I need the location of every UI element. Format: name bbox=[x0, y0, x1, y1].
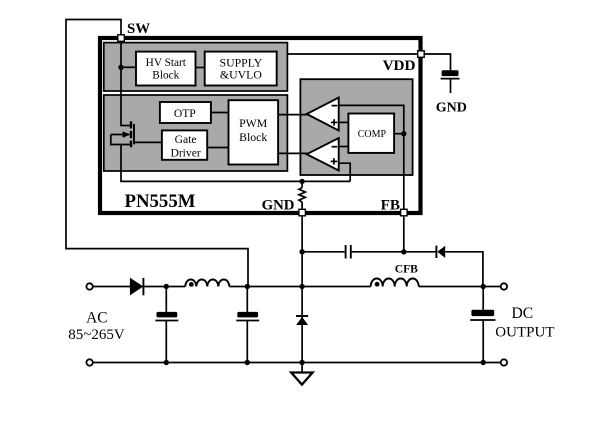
terminal: DC output minus bbox=[501, 359, 507, 365]
svg-text:Block: Block bbox=[152, 70, 179, 82]
wire: FB vertical to FB pin and below bbox=[403, 134, 405, 252]
diode D1 rectifier bbox=[130, 278, 144, 296]
svg-text:OUTPUT: OUTPUT bbox=[495, 325, 554, 341]
terminal: AC input top bbox=[86, 283, 92, 289]
node: filter cap 2 tap bbox=[245, 284, 250, 289]
gray block: PWM / gate driver section bbox=[104, 95, 288, 171]
svg-text:GND: GND bbox=[262, 198, 295, 214]
node: GND line / bottom rail bbox=[299, 360, 304, 365]
svg-text:&UVLO: &UVLO bbox=[220, 67, 262, 81]
white box: COMP bbox=[348, 114, 394, 153]
wire: AC input to rectifier diode bbox=[93, 286, 131, 288]
IC PN555M outer box bbox=[100, 38, 421, 213]
wire: supply section to VDD pin bbox=[287, 53, 418, 55]
wire: SW outer loop to AC rail bbox=[66, 20, 248, 287]
transistor Q1 power MOSFET bbox=[111, 121, 134, 147]
white box: SUPPLY & UVLO bbox=[205, 52, 277, 86]
node: bottom rail cap2 bbox=[245, 360, 250, 365]
wire: lower comparator + feedback drop bbox=[339, 163, 351, 181]
inductor L1 input filter bbox=[185, 280, 229, 287]
node: bottom rail output cap bbox=[481, 360, 486, 365]
op-amp U1 upper comparator bbox=[307, 98, 339, 131]
gray block: HV start / supply section bbox=[104, 43, 288, 91]
node: output cap tap bbox=[481, 284, 486, 289]
IC pin GND bbox=[299, 209, 306, 216]
svg-text:COMP: COMP bbox=[358, 129, 387, 140]
svg-text:HV Start: HV Start bbox=[146, 57, 187, 69]
svg-text:FB: FB bbox=[381, 197, 400, 214]
white box: Gate Driver bbox=[162, 130, 207, 159]
channel segment (source) bbox=[130, 141, 132, 148]
svg-text:SW: SW bbox=[127, 21, 150, 37]
wire: GND pin down through clamp diode to ground rail bbox=[301, 216, 303, 373]
node: COMP output junction bbox=[401, 131, 406, 136]
wire: HV Start Block to SUPPLY&UVLO bbox=[196, 67, 205, 69]
svg-text:OTP: OTP bbox=[174, 107, 196, 120]
svg-text:PWM: PWM bbox=[239, 116, 268, 130]
svg-text:Driver: Driver bbox=[170, 146, 200, 159]
wire: upper comparator plus input to COMP bbox=[339, 121, 349, 123]
wire: D2 anode to output node bbox=[445, 252, 483, 287]
svg-text:DC: DC bbox=[512, 305, 534, 322]
body arrowhead bbox=[123, 131, 131, 138]
gray block: comparator section bbox=[300, 79, 412, 175]
gate bar bbox=[133, 124, 135, 144]
inductor L2 CFB bbox=[371, 279, 419, 287]
wire: top coupling net bbox=[302, 251, 345, 253]
body arrow wire bbox=[111, 134, 130, 136]
diode D2 (cathode left) bbox=[436, 246, 445, 258]
white box: PWM Block bbox=[229, 100, 279, 164]
wire: Gate Driver to PWM Block bbox=[207, 147, 228, 149]
source-body tie loop bbox=[111, 135, 131, 145]
terminal: AC input bottom bbox=[86, 359, 92, 365]
node: source sense junction bbox=[299, 179, 304, 184]
node: SW line / HV tap junction bbox=[118, 65, 123, 70]
diode D3 clamp (cathode up) bbox=[296, 316, 308, 325]
svg-text:85~265V: 85~265V bbox=[68, 327, 125, 343]
wire: upper comparator minus input to FB node bbox=[339, 105, 404, 133]
node: bottom rail cap1 bbox=[164, 360, 169, 365]
IC pin FB bbox=[401, 209, 408, 216]
wire: coupling cap to FB node bbox=[352, 251, 436, 253]
svg-text:PN555M: PN555M bbox=[125, 191, 196, 212]
svg-text:GND: GND bbox=[436, 101, 467, 116]
wire: lower comparator minus input to COMP bbox=[339, 146, 349, 148]
wire: PWM Block to lower comparator output bbox=[278, 152, 307, 154]
svg-text:AC: AC bbox=[86, 309, 107, 326]
wire: MOSFET source down and right to sense node bbox=[121, 145, 350, 182]
capacitor C4 coupling bbox=[346, 245, 351, 259]
capacitor C2 filter 1 bbox=[155, 287, 178, 363]
node: GND line / top coupling net bbox=[299, 249, 304, 254]
wire: CFB to DC output bbox=[419, 286, 501, 288]
white box: OTP bbox=[160, 102, 211, 123]
node: filter cap 1 tap bbox=[164, 284, 169, 289]
op-amp U2 lower comparator bbox=[307, 138, 339, 171]
wire: PWM Block to upper comparator output bbox=[278, 114, 307, 116]
ground symbol bbox=[291, 373, 312, 385]
wire: inductor to mid rail bbox=[229, 286, 370, 288]
white box: HV Start Block bbox=[136, 52, 196, 86]
wire: SW pin down to MOSFET drain bbox=[121, 38, 131, 126]
svg-text:CFB: CFB bbox=[395, 263, 418, 276]
channel segment (drain) bbox=[130, 121, 132, 128]
capacitor C1 VDD decoupling bbox=[441, 70, 460, 93]
wire: tap to HV Start Block bbox=[121, 66, 136, 68]
svg-text:Block: Block bbox=[239, 130, 267, 144]
channel segment (body) bbox=[130, 131, 132, 138]
capacitor C5 output bbox=[470, 287, 495, 363]
capacitor C3 filter 2 bbox=[236, 287, 259, 363]
node: GND line / mid rail bbox=[299, 284, 304, 289]
wire: bottom return rail bbox=[93, 362, 501, 364]
svg-text:VDD: VDD bbox=[383, 57, 416, 74]
wire: MOSFET gate to Gate Driver bbox=[134, 141, 162, 143]
svg-text:Gate: Gate bbox=[175, 133, 197, 146]
wire: OTP to PWM Block bbox=[211, 112, 229, 114]
IC pin VDD bbox=[418, 51, 425, 58]
wire: diode to filter node bbox=[143, 286, 185, 288]
node: FB line / top coupling net bbox=[401, 249, 406, 254]
resistor R1 sense bbox=[299, 181, 305, 209]
wire: VDD pin to decoupling capacitor bbox=[424, 54, 450, 70]
IC pin SW bbox=[118, 35, 125, 42]
wire: COMP output to FB drop bbox=[394, 133, 404, 135]
terminal: DC output plus bbox=[501, 283, 507, 289]
